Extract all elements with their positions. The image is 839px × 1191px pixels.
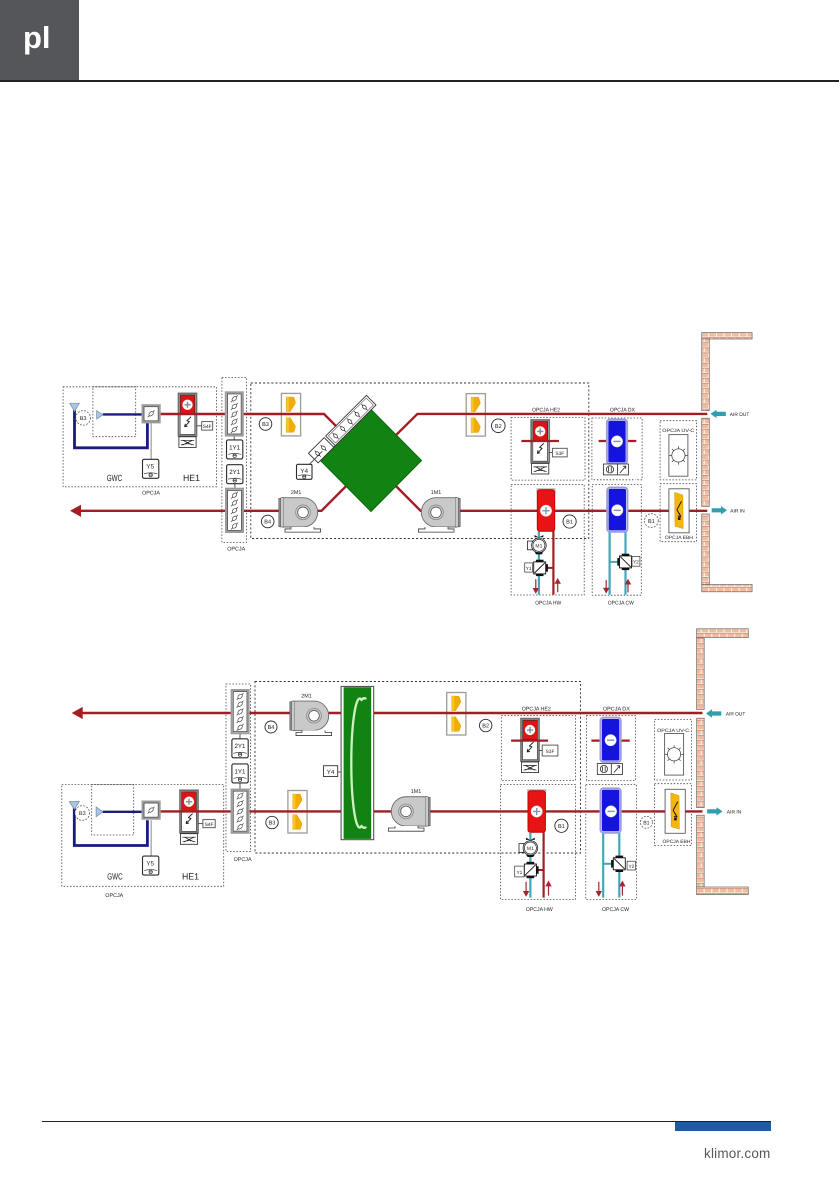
arrow CW down xyxy=(597,882,601,896)
fan 2M1 xyxy=(290,693,332,735)
svg-text:Y2: Y2 xyxy=(633,560,639,566)
node B1 outdoor xyxy=(645,514,659,528)
pipe CW valve stub xyxy=(610,561,618,563)
fan 2M1 xyxy=(279,490,321,532)
plate heat exchanger (green diamond) xyxy=(321,410,422,512)
pipe CW cyan left xyxy=(602,833,604,898)
node B2 xyxy=(492,419,506,433)
heater HE1 xyxy=(179,393,197,447)
actuator 1Y1 xyxy=(232,764,248,783)
valve Y2 xyxy=(611,856,625,872)
damper filter bottom xyxy=(232,790,249,833)
svg-text:Y5: Y5 xyxy=(146,464,154,471)
option box GWC outer xyxy=(62,784,224,886)
actuator Y4 xyxy=(297,464,313,479)
svg-text:AIR OUT: AIR OUT xyxy=(726,712,746,718)
damper yellow right (exhaust) xyxy=(466,394,485,437)
svg-text:OPCJA CW: OPCJA CW xyxy=(602,907,630,913)
svg-text:HE1: HE1 xyxy=(182,872,199,882)
damper GWC xyxy=(143,802,160,819)
heater EBH xyxy=(665,789,685,833)
pipe HW valve stub xyxy=(538,869,544,871)
svg-text:OPCJA DX: OPCJA DX xyxy=(610,407,635,413)
svg-text:1M1: 1M1 xyxy=(431,490,442,496)
pump M1 xyxy=(519,838,538,857)
svg-text:2M1: 2M1 xyxy=(301,693,312,699)
tag Y2 xyxy=(627,861,636,870)
svg-text:B3: B3 xyxy=(262,422,269,428)
wire 2Y1 to filter xyxy=(234,484,236,489)
damper yellow bottom (supply) xyxy=(288,791,307,834)
heater HE1 xyxy=(180,790,198,844)
heater EBH xyxy=(669,489,689,533)
pipe HW hot red xyxy=(542,830,544,898)
thermostat S3F xyxy=(542,745,558,756)
option box CW xyxy=(586,785,637,900)
arrow CW up xyxy=(626,580,630,593)
pipe CW valve stub xyxy=(603,863,612,865)
svg-text:B3: B3 xyxy=(80,416,87,422)
sensor intake funnel xyxy=(69,802,79,810)
tag Y1 xyxy=(525,563,533,572)
pipe HW cyan xyxy=(538,531,540,594)
sensor intake funnel xyxy=(70,403,80,411)
rotary heat exchanger wheel xyxy=(341,686,374,839)
option box DX xyxy=(586,716,635,781)
wire 1Y1 to filter xyxy=(239,783,241,790)
pipe HW cyan xyxy=(529,833,531,898)
option box UV-C xyxy=(660,421,697,480)
heater HE2 xyxy=(531,420,549,474)
damper filter bottom xyxy=(226,489,243,532)
svg-text:OPCJA: OPCJA xyxy=(234,857,252,863)
cooler DX coil xyxy=(601,718,621,762)
actuator Y5 xyxy=(143,856,159,875)
wire supply bottom line xyxy=(161,810,703,812)
svg-text:M1: M1 xyxy=(527,846,534,852)
actuator 2Y1 xyxy=(232,739,248,758)
svg-text:S4F: S4F xyxy=(205,822,214,828)
header pl tab xyxy=(0,0,79,80)
svg-text:S3F: S3F xyxy=(546,749,555,755)
node B1 outdoor xyxy=(640,816,652,828)
svg-text:OPCJA EBH: OPCJA EBH xyxy=(665,535,694,541)
exhaust discharge arrowhead xyxy=(72,707,83,719)
wire DX stub xyxy=(599,440,637,442)
bypass damper strip xyxy=(308,395,376,463)
svg-text:1Y1: 1Y1 xyxy=(234,768,246,775)
thermostat S4F xyxy=(203,820,215,828)
wire Y4 to bypass xyxy=(310,451,323,464)
cooler DX coil xyxy=(607,420,627,464)
fan 1M1 xyxy=(418,490,460,532)
svg-text:B4: B4 xyxy=(264,520,271,526)
tag Y2 xyxy=(632,556,640,566)
svg-text:OPCJA DX: OPCJA DX xyxy=(603,707,630,713)
svg-text:OPCJA HE2: OPCJA HE2 xyxy=(532,407,560,413)
pipe HW valve stub xyxy=(548,567,554,569)
pipe CW cyan left xyxy=(608,531,610,595)
wire exhaust bottom line xyxy=(80,486,708,510)
compressor DX box xyxy=(597,764,622,775)
damper yellow left (supply) xyxy=(281,393,300,436)
arrow HW down xyxy=(534,579,538,592)
svg-text:Y1: Y1 xyxy=(526,566,532,572)
wire filter to 1Y1 xyxy=(233,435,235,440)
arrow HW up xyxy=(546,882,550,896)
option box filter column xyxy=(222,378,247,543)
wire HE2 stub xyxy=(521,440,559,442)
valve Y2 xyxy=(617,554,631,570)
compressor DX box xyxy=(603,464,628,475)
actuator Y5 xyxy=(143,459,159,478)
svg-text:B2: B2 xyxy=(482,724,489,730)
svg-text:M1: M1 xyxy=(535,544,542,550)
sensor B3 (GWC) xyxy=(75,806,90,821)
node B3 xyxy=(266,816,278,828)
wire GWC inlet navy xyxy=(103,413,143,415)
arrow AIR IN xyxy=(712,506,745,514)
node B2 xyxy=(480,719,492,731)
wire filter to 2Y1 xyxy=(239,733,241,739)
wall (brick, diagram 2) xyxy=(697,629,749,895)
exhaust discharge arrowhead xyxy=(70,505,81,517)
arrow AIR IN xyxy=(707,807,741,815)
wire HE2 to S3F xyxy=(539,750,542,752)
node B1 xyxy=(563,515,576,528)
wire HE2 stub xyxy=(511,739,548,741)
svg-text:1M1: 1M1 xyxy=(411,789,422,795)
option box EBH xyxy=(660,484,697,542)
svg-text:S4F: S4F xyxy=(203,424,212,430)
arrow AIR OUT xyxy=(711,410,750,418)
svg-text:B2: B2 xyxy=(495,424,502,430)
cooler CW coil xyxy=(607,488,627,532)
svg-text:B3: B3 xyxy=(79,811,86,817)
option box filter column xyxy=(226,684,251,852)
svg-text:Y4: Y4 xyxy=(300,468,308,475)
node B1 xyxy=(555,819,568,832)
svg-text:S3F: S3F xyxy=(555,451,564,457)
arrow HW down xyxy=(524,882,528,896)
cooler CW coil xyxy=(601,788,621,832)
svg-text:HE1: HE1 xyxy=(183,473,200,483)
footer rule xyxy=(42,1121,771,1122)
tag Y1 xyxy=(515,866,524,877)
arrow CW up xyxy=(620,882,624,896)
svg-text:OPCJA EBH: OPCJA EBH xyxy=(663,839,692,845)
lamp UV-C xyxy=(669,435,688,477)
wire GWC sensor navy xyxy=(74,806,147,846)
svg-text:B1: B1 xyxy=(566,520,573,526)
option box GWC inner xyxy=(92,784,134,835)
svg-text:GWC: GWC xyxy=(107,872,123,882)
wire HE2 to S3F xyxy=(549,452,552,454)
damper filter top xyxy=(232,690,249,733)
heater HW coil xyxy=(536,488,555,531)
sensor B3 (GWC) xyxy=(76,411,91,426)
node B4 xyxy=(261,515,274,528)
option box DX xyxy=(592,418,642,480)
option box HW xyxy=(501,785,576,900)
wire DX stub xyxy=(591,739,629,741)
svg-text:AIR IN: AIR IN xyxy=(727,810,742,816)
svg-text:Y2: Y2 xyxy=(628,864,634,870)
svg-text:B1: B1 xyxy=(558,824,565,830)
main unit dashed box xyxy=(251,383,589,539)
svg-text:B4: B4 xyxy=(268,725,275,731)
option box UV-C xyxy=(655,720,692,781)
actuator 2Y1 xyxy=(227,465,243,484)
svg-text:OPCJA: OPCJA xyxy=(142,490,160,496)
wire damper to Y5 xyxy=(150,422,152,459)
option box HE2 xyxy=(511,418,585,481)
node B3 xyxy=(259,418,272,431)
svg-text:OPCJA CW: OPCJA CW xyxy=(608,600,635,606)
pump M1 xyxy=(528,535,547,554)
header rule xyxy=(0,80,839,82)
svg-text:AIR IN: AIR IN xyxy=(730,508,745,514)
actuator 1Y1 xyxy=(227,440,243,459)
sensor inlet triangle xyxy=(97,411,103,420)
valve Y1 xyxy=(524,862,538,878)
damper filter top xyxy=(226,392,243,435)
option box HE2 xyxy=(501,716,575,781)
svg-text:2M1: 2M1 xyxy=(291,490,302,496)
svg-text:B1: B1 xyxy=(643,821,649,827)
svg-text:OPCJA UV-C: OPCJA UV-C xyxy=(662,428,695,434)
damper GWC xyxy=(143,405,160,422)
lamp UV-C xyxy=(665,734,684,776)
wire GWC sensor navy xyxy=(75,408,148,448)
option box GWC inner xyxy=(93,387,136,437)
thermostat S4F xyxy=(202,422,213,431)
footer url xyxy=(704,1146,771,1161)
svg-text:Y5: Y5 xyxy=(146,860,154,867)
heater HE2 xyxy=(521,719,539,773)
node B4 xyxy=(265,721,277,733)
svg-text:GWC: GWC xyxy=(107,473,123,483)
option box EBH xyxy=(655,784,692,846)
svg-text:AIR OUT: AIR OUT xyxy=(730,412,750,418)
wire exhaust top line xyxy=(81,712,703,714)
pipe CW cyan right xyxy=(618,833,620,898)
option box HW xyxy=(511,484,584,595)
option box GWC outer xyxy=(63,387,216,487)
svg-text:Y1: Y1 xyxy=(516,870,522,876)
arrow AIR OUT xyxy=(706,709,745,717)
footer blue bar xyxy=(675,1122,771,1131)
svg-text:OPCJA HW: OPCJA HW xyxy=(526,907,554,913)
arrow HW up xyxy=(556,579,560,592)
svg-text:B3: B3 xyxy=(269,821,276,827)
sensor inlet triangle xyxy=(96,807,103,817)
wire HE1 to S4F xyxy=(198,823,203,825)
wire supply top line xyxy=(161,414,708,435)
damper yellow top (exhaust) xyxy=(447,693,466,736)
main unit dashed box xyxy=(255,682,581,854)
actuator Y4 xyxy=(324,766,338,777)
wire GWC inlet navy xyxy=(103,811,143,813)
wire Y4 to wheel xyxy=(338,771,341,773)
wire damper to Y5 xyxy=(150,820,152,856)
svg-text:2Y1: 2Y1 xyxy=(229,469,241,476)
svg-text:B1: B1 xyxy=(648,519,655,525)
pipe CW cyan right xyxy=(624,531,626,595)
arrow CW down xyxy=(604,580,608,593)
svg-text:OPCJA: OPCJA xyxy=(227,547,245,553)
svg-text:OPCJA HW: OPCJA HW xyxy=(535,600,562,606)
wire HE1 to S4F xyxy=(197,425,202,427)
valve Y1 xyxy=(534,560,548,576)
wall (brick, diagram 1) xyxy=(702,333,752,592)
fan 1M1 xyxy=(388,789,430,831)
svg-text:1Y1: 1Y1 xyxy=(229,444,241,451)
svg-text:2Y1: 2Y1 xyxy=(234,743,246,750)
option box CW xyxy=(592,484,641,595)
heater HW coil xyxy=(527,789,546,832)
thermostat S3F xyxy=(552,448,567,457)
svg-text:OPCJA: OPCJA xyxy=(105,893,123,899)
svg-text:OPCJA HE2: OPCJA HE2 xyxy=(522,707,551,713)
svg-text:Y4: Y4 xyxy=(327,769,335,776)
pipe HW hot red xyxy=(552,530,554,595)
